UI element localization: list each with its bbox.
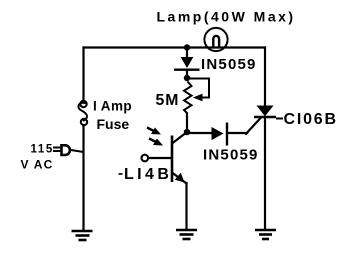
- svg-text:Lamp(40W Max): Lamp(40W Max): [157, 9, 296, 25]
- wire: diode D1 cathode to junction B: [186, 70, 188, 78]
- collector lead: [172, 132, 187, 144]
- SCR U1 C106B: [254, 106, 283, 119]
- wire: diode D2 cathode to gate bend: [228, 132, 247, 134]
- wire: left vertical (fuse to ground): [82, 125, 84, 231]
- diode D2 1N5059 (horizontal): [212, 123, 227, 146]
- svg-text:LI4B: LI4B: [124, 166, 172, 183]
- node C: junction dot at collector: [184, 129, 190, 135]
- lamp LP1: [204, 28, 227, 51]
- svg-text:I Amp: I Amp: [93, 99, 132, 114]
- potentiometer R1 5M: [184, 79, 209, 114]
- emitter lead: [172, 173, 187, 184]
- svg-text:115: 115: [31, 144, 54, 156]
- wire: left vertical (top of fuse): [82, 48, 84, 102]
- svg-text:Fuse: Fuse: [97, 116, 130, 132]
- wire: middle vertical (junction A to diode D1): [186, 48, 188, 59]
- node B: junction dot below diode D1: [184, 75, 190, 81]
- base lead: [149, 157, 172, 159]
- light arrow 1: [147, 128, 161, 135]
- fuse F1: [78, 101, 87, 125]
- ground (middle): [176, 230, 197, 239]
- base terminal circle: [142, 155, 149, 162]
- ground (left): [72, 231, 93, 240]
- svg-text:IN5059: IN5059: [203, 147, 259, 164]
- diode D1 1N5059: [174, 58, 200, 70]
- wire: pot bottom to junction C: [186, 114, 188, 133]
- wire: SCR cathode down to ground: [264, 117, 266, 230]
- tick before L14B label: [119, 173, 123, 175]
- phototransistor Q1 L14B: [142, 132, 188, 184]
- svg-text:5M: 5M: [156, 92, 180, 109]
- wire: right vertical (top rail to SCR anode): [264, 48, 266, 107]
- wire: emitter down to ground: [185, 183, 187, 230]
- ground (right): [255, 230, 276, 239]
- light arrow 2: [149, 139, 163, 146]
- wire: top horizontal rail: [84, 46, 266, 48]
- wiper loop wire: [187, 79, 209, 98]
- svg-text:IN5059: IN5059: [201, 56, 257, 73]
- node A: junction dot on top rail: [184, 44, 190, 50]
- svg-text:CI06B: CI06B: [284, 111, 338, 128]
- plug 115 VAC: [53, 145, 84, 155]
- wire: SCR gate diagonal: [246, 118, 261, 134]
- base bar: [171, 136, 174, 183]
- wiper arrowhead: [193, 94, 203, 102]
- emitter arrowhead: [175, 173, 185, 183]
- wire: junction C to diode D2 anode: [187, 132, 213, 133]
- svg-text:V AC: V AC: [21, 157, 54, 171]
